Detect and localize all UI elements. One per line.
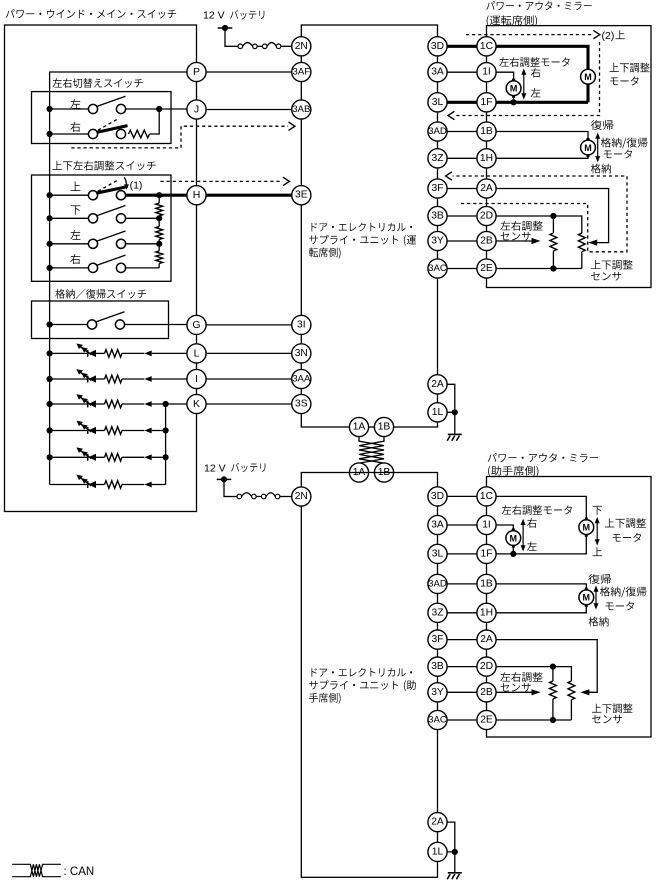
connector 3AB	[292, 100, 311, 119]
contact left B	[116, 104, 125, 113]
svg-text:1L: 1L	[432, 846, 444, 857]
CAN legend twisted pair	[12, 864, 61, 876]
lever left switch	[96, 96, 125, 106]
connector 3D	[428, 37, 447, 56]
dashed arrow retract flow	[446, 172, 452, 180]
wire res-arrow 6	[122, 484, 144, 486]
wire 3AD-1B	[438, 131, 487, 133]
svg-text:12 V: 12 V	[204, 462, 226, 474]
contact right A	[88, 129, 97, 138]
wire pot1 left bot b	[552, 699, 554, 720]
connector 1B can1	[374, 417, 393, 436]
wire 3Y-2B	[438, 240, 487, 242]
wire 2A to ground 2	[438, 822, 455, 873]
connector J	[187, 100, 206, 119]
wire battery 2 drop	[224, 479, 226, 496]
resistor illum R4	[105, 427, 123, 435]
wire M5 to 1F	[487, 535, 587, 554]
junction chain mid2	[156, 241, 162, 247]
wire right row	[50, 133, 89, 135]
wire 2A wiper	[487, 189, 609, 243]
connector 1B mirror b	[477, 574, 496, 593]
breaker coil 1	[226, 43, 292, 49]
label mirror2 title	[488, 453, 598, 462]
label lr sensor 2 l2	[501, 683, 531, 692]
connector 2N unit2	[292, 487, 311, 506]
connector 3F	[428, 179, 447, 198]
contact right2 A	[88, 263, 97, 272]
connector 1L unit2	[428, 842, 447, 861]
motor M3 retract	[581, 138, 596, 157]
arrow lr wiper 1	[532, 238, 541, 244]
connector 2D	[477, 206, 496, 225]
connector 3AC	[428, 259, 447, 278]
connector 2A mirror b	[477, 630, 496, 649]
arrow (1) pointer	[124, 177, 129, 189]
label power window main switch	[6, 9, 176, 18]
wire 1C-M2-1F bold loop	[487, 46, 589, 69]
connector 3Z b	[428, 603, 447, 622]
junction bus-down	[47, 215, 53, 221]
lever up switch dashed	[98, 180, 118, 191]
connector 1L unit1	[428, 403, 447, 422]
lever down switch	[96, 206, 125, 216]
label retract motor 1 l2	[604, 149, 632, 158]
connector 3AA	[292, 369, 311, 388]
wire 3AD-1B b	[438, 583, 487, 585]
connector 2N unit1	[292, 37, 311, 56]
wire 1B to M6	[487, 584, 587, 590]
junction bus-retract	[47, 321, 53, 327]
connector 3S	[292, 394, 311, 413]
wire battery 1 drop	[225, 28, 227, 46]
wire up row	[50, 194, 89, 196]
connector 1H	[477, 149, 496, 168]
connector 2A unit1	[428, 375, 447, 394]
svg-text:3AD: 3AD	[428, 126, 447, 137]
label door unit 2 line2	[309, 680, 416, 691]
connector 3L	[428, 93, 447, 112]
junction ground 2	[452, 849, 458, 855]
junction bus-illum4	[47, 427, 53, 433]
wire M2 down	[586, 84, 589, 102]
svg-text:3E: 3E	[295, 190, 308, 201]
wire illum out 4	[152, 430, 166, 432]
connector 1F b	[477, 544, 496, 563]
dashed path right-select to 3AB	[71, 126, 288, 148]
svg-text:3A: 3A	[431, 67, 444, 78]
svg-text:1F: 1F	[480, 548, 492, 559]
wire 3L-1F b	[438, 553, 487, 555]
wire 3F-2A	[438, 188, 487, 190]
resistor illum R3	[105, 400, 123, 408]
wire pot2 bot b	[570, 700, 572, 720]
connector 2B b	[477, 683, 496, 702]
wire led-res 1	[96, 352, 105, 354]
ground 1	[447, 434, 462, 440]
LED D1	[76, 344, 96, 358]
wire led-res 3	[96, 403, 105, 405]
wire 2D sensor top	[487, 216, 582, 233]
wire M4 to 1F	[512, 545, 514, 554]
resistor illum R2	[105, 375, 123, 383]
diode arrow row 5	[144, 454, 151, 460]
label ue	[71, 182, 81, 191]
connector 1B can2	[374, 463, 393, 482]
label mirror1 title	[486, 1, 591, 10]
wire down row	[50, 217, 89, 219]
wire 3AC-2E	[438, 268, 487, 270]
svg-text:3AD: 3AD	[428, 578, 447, 589]
wire 3Z-1H b	[438, 612, 487, 614]
svg-text:3AB: 3AB	[292, 104, 310, 115]
label ud motor 1 l1	[610, 63, 650, 73]
junction bus-right2	[47, 265, 53, 271]
dashed path (2) up	[466, 34, 593, 36]
connector 3B	[428, 206, 447, 225]
contact retract A	[87, 320, 96, 329]
contact left2 A	[88, 239, 97, 248]
wire 2E sensor bottom	[487, 268, 582, 270]
junction ground 1	[452, 409, 458, 415]
adjust switch box	[32, 175, 172, 281]
wire res-arrow 5	[122, 456, 144, 458]
junction illum5-bus2	[163, 454, 169, 460]
label battery 1 jp	[230, 10, 264, 19]
svg-text:3A: 3A	[431, 520, 444, 531]
diode arrow row 3	[144, 401, 151, 407]
wire illum row 6	[50, 484, 88, 486]
wire illum out 5	[152, 456, 166, 458]
svg-text:3L: 3L	[432, 548, 444, 559]
wire res-arrow 4	[122, 430, 144, 432]
wire left2 row	[50, 243, 89, 245]
LED D6	[76, 475, 96, 489]
arrow lr wiper 2	[532, 689, 541, 695]
junction bus-up	[47, 192, 53, 198]
label retract switch	[55, 289, 146, 299]
diode arrow row 1	[144, 351, 151, 357]
motor M4 lr-adjust	[506, 528, 521, 547]
label migi m4	[527, 518, 537, 528]
wire retract out	[125, 324, 187, 326]
svg-text:2A: 2A	[431, 379, 444, 390]
wire 3F-2A b	[438, 639, 487, 641]
connector 3A b	[428, 515, 447, 534]
connector 2A mirror	[477, 179, 496, 198]
wire 2A wiper b	[487, 640, 598, 693]
junction left-out	[156, 106, 162, 112]
wire I-3AA	[197, 378, 302, 380]
diode arrow row 6	[144, 482, 151, 488]
lever right2 switch	[96, 255, 125, 265]
svg-text:2N: 2N	[295, 41, 308, 52]
contact right2 B	[116, 263, 125, 272]
arrow lr motor 1	[521, 69, 526, 100]
junction 2E-pot	[550, 265, 556, 271]
label (2) ue	[615, 30, 624, 39]
wire M2-1F bold	[487, 101, 589, 104]
wire P-3AF	[197, 71, 302, 73]
connector P	[187, 62, 206, 81]
wire 2B wiper	[487, 240, 532, 242]
svg-text:12 V: 12 V	[203, 10, 225, 22]
wire illum row 3	[50, 403, 88, 405]
svg-text:2A: 2A	[480, 183, 493, 194]
junction 2D-pot b	[550, 664, 556, 670]
connector 1H b	[477, 603, 496, 622]
svg-text:1C: 1C	[480, 491, 494, 502]
wire 3B-2D b	[438, 666, 487, 668]
label door unit 1 line2	[309, 235, 416, 246]
arrow ud wiper 2	[580, 689, 589, 695]
junction 2E-pot b	[550, 717, 556, 723]
resistor chain R1	[156, 203, 163, 216]
wire 3B-2D	[438, 215, 487, 217]
wire 2D sensor top b	[487, 667, 572, 681]
wire 2A to ground 1	[438, 384, 455, 434]
wire led-res 2	[96, 378, 105, 380]
label retract motor 2 l1	[600, 587, 647, 598]
label hidari2	[70, 230, 80, 240]
junction bus-illum2	[47, 376, 53, 382]
label ud sensor 1 l1	[591, 260, 633, 270]
label lr sensor 1 l1	[500, 221, 542, 231]
dashed arrow into 3AB	[289, 122, 295, 130]
svg-text:1B: 1B	[378, 422, 391, 433]
contact right B	[116, 129, 125, 138]
label ud motor 1 l2	[610, 76, 638, 85]
connector H	[187, 186, 206, 205]
wire G-3I	[197, 324, 302, 326]
connector 3F b	[428, 630, 447, 649]
svg-text:3Z: 3Z	[431, 153, 443, 164]
svg-text:2A: 2A	[480, 634, 493, 645]
wire 3AC-2E b	[438, 719, 487, 721]
contact down A	[88, 214, 97, 223]
connector 1A can1	[349, 417, 368, 436]
wire 3Y-2B b	[438, 691, 487, 693]
svg-text:3Y: 3Y	[431, 236, 444, 247]
svg-text:3Z: 3Z	[431, 607, 443, 618]
svg-text:P: P	[193, 66, 200, 78]
wire 3D-1C b	[438, 495, 487, 497]
label migi2	[70, 254, 80, 264]
door unit 2 box	[301, 473, 437, 878]
resistor chain R3	[156, 251, 163, 264]
breaker coil 2	[225, 493, 292, 499]
dashed arrow into 3E	[283, 177, 289, 185]
resistor lr sensor b	[550, 681, 557, 699]
battery 2 terminal	[217, 476, 232, 482]
connector 2D b	[477, 657, 496, 676]
wire led-res 4	[96, 430, 105, 432]
LED D2	[76, 369, 96, 383]
dashed path retract flow	[453, 176, 627, 252]
wire right to junction	[150, 109, 160, 134]
wire M1 to 1F	[513, 96, 515, 103]
svg-text:L: L	[194, 347, 200, 359]
arrow retract motor 1	[595, 133, 600, 163]
power outer mirror 1 box	[487, 26, 652, 288]
svg-text:3S: 3S	[295, 399, 308, 410]
wire illum right bus	[165, 404, 167, 485]
svg-text:1H: 1H	[480, 607, 493, 618]
wire K-3S	[197, 403, 302, 405]
svg-text:M: M	[584, 72, 592, 82]
wire resistor chain verticals	[158, 195, 160, 268]
label lr motor 2	[502, 505, 572, 515]
connector G	[187, 315, 206, 334]
connector 3Y	[428, 231, 447, 250]
wire led-res 5	[96, 456, 105, 458]
junction chain mid1	[156, 215, 162, 221]
label door unit 1 line3	[309, 248, 341, 259]
connector 3A	[428, 63, 447, 82]
wire P feed bus	[50, 72, 187, 485]
label hidari m1	[531, 88, 541, 97]
connector 3B b	[428, 657, 447, 676]
LED D5	[76, 447, 96, 461]
svg-text:1A: 1A	[353, 422, 366, 433]
label ud sensor 2 l2	[592, 715, 622, 724]
label shita m5	[593, 506, 602, 515]
svg-text:2B: 2B	[480, 236, 493, 247]
dashed path return flow	[455, 42, 600, 116]
connector 3AF	[292, 62, 311, 81]
junction K-bus2	[163, 401, 169, 407]
svg-text:1L: 1L	[432, 407, 444, 418]
label ud sensor 1 l2	[591, 272, 621, 281]
svg-text:M: M	[584, 143, 592, 153]
svg-text:2E: 2E	[480, 715, 493, 726]
label door unit 2 line3	[309, 693, 341, 704]
lever left2 switch	[96, 231, 125, 241]
connector 3I	[292, 315, 311, 334]
svg-text:3I: 3I	[297, 319, 306, 330]
svg-text:K: K	[193, 398, 200, 410]
svg-text:2D: 2D	[480, 211, 493, 222]
resistor lr sensor	[550, 233, 557, 251]
svg-text:3B: 3B	[431, 211, 444, 222]
connector 2E b	[477, 710, 496, 729]
svg-text:J: J	[194, 104, 199, 116]
connector 2A unit2	[428, 813, 447, 832]
arrow ud wiper 1	[588, 240, 597, 246]
svg-text:M: M	[583, 523, 591, 533]
wire led-res 6	[96, 484, 105, 486]
svg-text:M: M	[583, 593, 591, 603]
label lr motor 1	[499, 57, 569, 67]
wire 1B to M3	[487, 132, 589, 141]
ground 2	[447, 873, 462, 879]
wire left2 out	[126, 243, 160, 245]
label ud motor 2 l2	[613, 533, 641, 542]
label battery 2 jp	[231, 463, 265, 472]
wire right2 out	[126, 267, 160, 269]
label retract motor 1 l1	[601, 138, 648, 149]
junction bus-illum5	[47, 454, 53, 460]
junction 2D-pot	[550, 213, 556, 219]
connector 3AC b	[428, 710, 447, 729]
label door unit 1 line1	[311, 222, 412, 231]
wire illum row 1	[50, 352, 88, 354]
motor M2 ud-adjust	[581, 67, 596, 86]
label lr sensor 1 l2	[501, 232, 531, 241]
connector 3D b	[428, 487, 447, 506]
wire J-3AB	[197, 109, 302, 111]
wire left out	[126, 108, 187, 110]
connector L	[187, 344, 206, 363]
arrow ud motor 2	[595, 517, 600, 546]
junction M4-1F	[510, 551, 516, 557]
wire illum out 3	[152, 403, 187, 405]
svg-text:2E: 2E	[480, 263, 493, 274]
label migi	[70, 122, 80, 132]
svg-text:I: I	[195, 373, 198, 385]
connector 1I	[477, 63, 496, 82]
connector 3AD b	[428, 574, 447, 593]
junction M1-1F	[510, 99, 516, 105]
label hidari m4	[527, 542, 537, 551]
svg-text:(2): (2)	[602, 30, 615, 42]
svg-text:3AC: 3AC	[428, 263, 447, 274]
wire 3A-1I	[438, 71, 487, 73]
svg-text:M: M	[510, 84, 518, 94]
junction bus-right	[47, 131, 53, 137]
dashed arrow return flow	[448, 111, 454, 119]
motor M5 ud-adjust	[579, 518, 594, 537]
label selector switch	[53, 78, 143, 88]
LED D3	[76, 394, 96, 408]
connector 1A can2	[349, 463, 368, 482]
junction bus-left	[47, 106, 53, 112]
connector 2E	[477, 259, 496, 278]
junction up-chain	[156, 192, 162, 198]
wire 1C to M5	[487, 496, 587, 519]
wire 2B wiper b	[487, 691, 532, 693]
svg-text:3D: 3D	[431, 41, 444, 52]
svg-text:(1): (1)	[130, 179, 143, 191]
lever up switch closed	[96, 187, 127, 194]
wire M3 to 1H	[487, 155, 589, 159]
label mirror2 side	[488, 466, 538, 477]
label migi m1	[531, 68, 541, 78]
label hidari	[70, 99, 80, 109]
svg-text:3Y: 3Y	[431, 687, 444, 698]
wire 3L-1F	[438, 101, 487, 104]
resistor illum R5	[105, 454, 123, 462]
junction bus-left2	[47, 241, 53, 247]
label shita	[71, 205, 81, 214]
motor M1 lr-adjust	[506, 79, 521, 98]
wire 3A-1I b	[438, 524, 487, 526]
wire down out	[126, 217, 160, 219]
svg-text:1I: 1I	[482, 520, 491, 531]
svg-text:M: M	[510, 533, 518, 543]
wire 2E sensor bottom b	[487, 719, 572, 721]
door unit 1 box	[301, 25, 437, 427]
wire right2 row	[50, 267, 89, 269]
svg-text:2A: 2A	[431, 817, 444, 828]
diode arrow row 2	[144, 376, 151, 382]
dashed path up-switch to 3E	[161, 180, 283, 182]
svg-text:: CAN: : CAN	[64, 866, 95, 878]
wire illum row 5	[50, 456, 88, 458]
resistor right select	[129, 130, 150, 138]
label door unit 2 line1	[311, 668, 412, 677]
svg-text:1C: 1C	[480, 41, 494, 52]
